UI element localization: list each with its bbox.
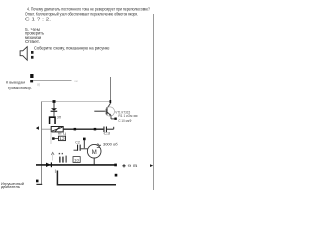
L wire <box>57 171 116 185</box>
switch tick <box>54 170 56 174</box>
net wire <box>33 80 72 82</box>
C4 label dots <box>59 153 60 154</box>
wire C2 vertical <box>83 140 85 148</box>
svg-text:С3: С3 <box>104 132 111 136</box>
capacitor C4 plates <box>59 157 60 163</box>
junction dot row a <box>74 128 77 130</box>
rail end dot <box>114 164 117 167</box>
svg-text:громкоговор.: громкоговор. <box>8 85 32 90</box>
colon after speaker <box>31 51 34 54</box>
arrow near border <box>150 164 153 167</box>
svg-text:км: км <box>75 79 78 83</box>
resistor R1 box <box>51 127 63 132</box>
row wire segment 1 <box>42 128 51 130</box>
svg-text:10: 10 <box>74 158 79 162</box>
svg-text:К выводам: К выводам <box>6 79 25 84</box>
svg-text:М: М <box>92 150 97 156</box>
tilde mark 2 <box>97 147 100 149</box>
emitter end dot <box>114 118 116 120</box>
row wire left arrow <box>36 126 39 130</box>
junction dot C2 top <box>83 138 86 141</box>
tick up at row end <box>113 127 114 129</box>
svg-text:С 10 мкФ: С 10 мкФ <box>118 119 131 123</box>
junction dot row b <box>94 128 97 130</box>
svg-text:С 1 ? : 2.: С 1 ? : 2. <box>25 17 51 23</box>
dot near foot <box>36 180 39 183</box>
plus sign <box>122 165 125 167</box>
speaker icon <box>20 47 27 61</box>
row wire segment 3 <box>107 128 114 130</box>
wire: left vertical <box>41 102 43 185</box>
component box on rail <box>73 157 80 163</box>
svg-text:a): a) <box>37 83 40 87</box>
bottom rail <box>36 164 115 166</box>
wire stub diode to buzzer <box>53 112 55 117</box>
diode D1 <box>51 108 57 110</box>
svg-text:кГц: кГц <box>58 131 66 135</box>
row wire segment 2 <box>63 128 103 130</box>
wire: top rail faint <box>42 101 111 103</box>
svg-text:двигатель: двигатель <box>1 185 20 189</box>
buzzer B1 <box>49 116 56 124</box>
junction dot row 2 <box>52 137 55 140</box>
net terminal square <box>30 74 33 78</box>
motor M1 <box>87 144 101 158</box>
C2 left stub <box>74 149 78 151</box>
C2 right stub <box>81 148 88 150</box>
net corner blob <box>30 80 33 82</box>
caret mark above D2 <box>51 152 54 155</box>
motor stub to rail <box>93 158 95 165</box>
base wire <box>94 110 106 112</box>
transistor VT1 <box>110 100 112 103</box>
capacitor C3 plates <box>103 127 104 133</box>
svg-text:9 В: 9 В <box>128 164 139 168</box>
svg-text:Ответ.: Ответ. <box>25 39 40 45</box>
svg-text:R1 1 кОм: R1 1 кОм <box>118 114 133 118</box>
wire stub to diode D1 <box>53 103 55 108</box>
svg-text:ЗП: ЗП <box>57 115 62 119</box>
isolated dot <box>115 174 118 177</box>
svg-text:Соберите схему, показанную на: Соберите схему, показанную на рисунке <box>34 45 110 51</box>
node junction top <box>53 100 56 103</box>
svg-text:3000 об: 3000 об <box>103 143 118 147</box>
tilde mark <box>97 144 101 146</box>
svg-text:С2: С2 <box>75 140 80 144</box>
faint stub above D2 <box>51 155 53 161</box>
capacitor C2 plates <box>77 145 78 151</box>
svg-text:Ответ. Коллекторный узел обесп: Ответ. Коллекторный узел обеспечивает пе… <box>25 11 138 18</box>
right page border <box>153 14 155 190</box>
wire: collector net vertical <box>110 77 112 101</box>
faint vertical near R2 <box>50 132 52 144</box>
resistor R2 box <box>59 136 66 140</box>
label arrow dash <box>134 115 138 117</box>
wire to R2 <box>55 138 59 140</box>
svg-text:12: 12 <box>59 137 65 141</box>
diode D2 on rail <box>46 163 51 167</box>
left vertical foot <box>36 183 42 185</box>
